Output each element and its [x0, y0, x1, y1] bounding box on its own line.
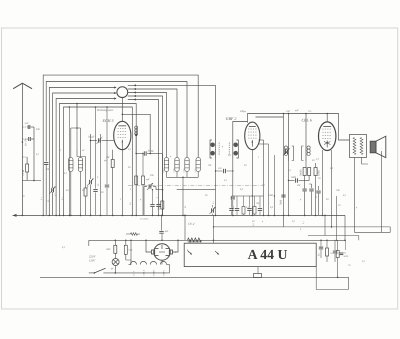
- svg-text:500: 500: [150, 174, 154, 177]
- svg-text:4: 4: [97, 176, 99, 179]
- label ECH3: [102, 118, 114, 123]
- capacitor 4uF top: [159, 215, 169, 241]
- svg-text:500: 500: [36, 128, 40, 131]
- svg-text:Drehung kurz: Drehung kurz: [96, 108, 114, 112]
- svg-text:5000: 5000: [344, 255, 349, 258]
- resistor R detektor a: [300, 168, 307, 177]
- svg-text:0,1: 0,1: [36, 153, 39, 156]
- svg-text:0,7: 0,7: [316, 158, 320, 161]
- svg-text:μμF: μμF: [295, 109, 299, 112]
- wire right drop: [344, 215, 346, 241]
- svg-text:5: 5: [130, 188, 132, 191]
- coil L1: [69, 128, 73, 215]
- svg-text:μ: μ: [356, 206, 358, 209]
- IF2 secondary T2b: [302, 146, 311, 162]
- svg-text:0,5: 0,5: [330, 167, 334, 170]
- wire CBL6 top: [326, 113, 328, 122]
- svg-text:2: 2: [120, 198, 122, 201]
- capacitor col 107: [105, 106, 109, 215]
- svg-text:μ: μ: [300, 198, 302, 201]
- svg-text:1M: 1M: [106, 156, 110, 159]
- svg-text:25: 25: [338, 204, 341, 207]
- wire ECH3 top right: [122, 114, 152, 155]
- capacitor tilt a: [229, 196, 233, 215]
- wire IF2 bottoms: [289, 161, 307, 181]
- wire IF2b top: [305, 113, 307, 146]
- wire trim a: [144, 187, 163, 216]
- wire col 69: [69, 106, 71, 215]
- capacitor bus d: [258, 196, 262, 215]
- svg-text:4μF: 4μF: [165, 230, 169, 233]
- capacitor antenna series: [25, 122, 30, 129]
- coil osc 4: [194, 158, 201, 178]
- resistor det a: [135, 176, 138, 185]
- tube ECH3 V1: [114, 121, 131, 149]
- wire under box: [257, 267, 259, 274]
- wire switch left 1: [49, 86, 116, 215]
- svg-text:0,5: 0,5: [240, 188, 244, 191]
- wire chassis link: [177, 189, 216, 191]
- svg-text:0,1: 0,1: [337, 252, 340, 255]
- svg-text:μ: μ: [170, 155, 172, 158]
- svg-text:300μμ: 300μμ: [148, 150, 155, 153]
- wire IF1b bottom: [231, 159, 235, 216]
- wire switch right 1: [128, 84, 216, 139]
- svg-text:5000: 5000: [268, 194, 274, 197]
- transformer output: [350, 135, 367, 158]
- svg-text:0,1: 0,1: [362, 260, 365, 263]
- capacitor col 95: [93, 106, 97, 215]
- svg-text:1: 1: [258, 156, 259, 159]
- nameplate box: [184, 243, 316, 266]
- wire EBF2 diode: [259, 140, 264, 215]
- svg-text:CBL6: CBL6: [142, 269, 145, 275]
- svg-text:500: 500: [46, 168, 50, 171]
- coil L2: [78, 128, 82, 215]
- svg-text:0,1: 0,1: [40, 197, 43, 200]
- wire CY2 sides: [145, 240, 179, 253]
- wire link 336: [336, 196, 337, 241]
- svg-text:50: 50: [128, 166, 131, 169]
- capacitor 283: [280, 195, 286, 205]
- wire mains left: [88, 240, 90, 246]
- svg-text:1,5 M: 1,5 M: [22, 169, 25, 176]
- wire ECH3 top: [121, 97, 123, 122]
- svg-text:3: 3: [175, 251, 177, 254]
- wire AGC: [274, 155, 275, 215]
- svg-text:CY2: CY2: [132, 270, 135, 275]
- bus junctions: [22, 215, 324, 217]
- svg-text:300μμ: 300μμ: [240, 110, 247, 113]
- svg-text:50: 50: [232, 205, 235, 208]
- svg-text:5000: 5000: [280, 199, 283, 205]
- svg-text:aF: aF: [82, 149, 85, 152]
- svg-text:30: 30: [205, 194, 208, 197]
- wire right drop3: [316, 267, 348, 290]
- svg-text:0,1: 0,1: [302, 221, 305, 224]
- label CBL6: [302, 118, 312, 123]
- svg-text:2M: 2M: [297, 184, 301, 187]
- wire CBL6 down b: [331, 150, 333, 228]
- svg-text:30: 30: [312, 159, 315, 162]
- svg-text:0,1: 0,1: [61, 197, 64, 200]
- wire caps join: [22, 127, 34, 181]
- svg-text:0,50: 0,50: [183, 168, 186, 173]
- IF1 secondary T1b: [229, 140, 238, 159]
- wire ps drop: [337, 240, 339, 278]
- svg-text:25: 25: [348, 264, 351, 267]
- wire CBL6 down a: [322, 150, 324, 215]
- svg-text:ECH3: ECH3: [152, 269, 155, 276]
- wire link 358: [358, 236, 360, 241]
- capacitor bus b: [247, 196, 251, 215]
- resistor col 85: [84, 157, 87, 216]
- wire smoothing feed: [184, 215, 186, 241]
- wire trafo bottom: [355, 158, 369, 233]
- wire EBF2 top2: [256, 113, 285, 227]
- resistor bus c: [253, 196, 256, 215]
- filament chain: [129, 261, 167, 264]
- svg-text:0,1: 0,1: [318, 252, 321, 256]
- wire CY2 bottom: [161, 260, 163, 264]
- svg-text:0,50: 0,50: [173, 168, 176, 173]
- svg-text:5000: 5000: [291, 176, 297, 179]
- svg-text:0,1: 0,1: [288, 169, 291, 172]
- svg-text:Lad: Lad: [128, 249, 134, 252]
- svg-text:ECH 3: ECH 3: [102, 118, 114, 123]
- svg-text:0,2: 0,2: [262, 184, 266, 187]
- svg-text:50: 50: [97, 183, 100, 186]
- svg-text:EBF2: EBF2: [162, 269, 165, 275]
- wire node join: [22, 180, 41, 182]
- wire loop outer 2: [46, 82, 187, 162]
- wire switch left 2: [53, 92, 117, 188]
- capacitor 5000 volume: [288, 176, 309, 215]
- capacitor antenna 2: [25, 137, 31, 146]
- svg-text:CY 2: CY 2: [188, 222, 195, 226]
- capacitor left col2: [44, 163, 48, 216]
- wire IF2 top: [288, 113, 290, 146]
- svg-text:2: 2: [60, 149, 62, 152]
- ground bus: [13, 214, 346, 217]
- label EBF2: [225, 116, 236, 121]
- svg-text:50000: 50000: [300, 169, 303, 176]
- wire coil bottoms: [167, 177, 199, 216]
- resistor mains 800: [107, 240, 117, 254]
- tube CY2 V4: [152, 244, 173, 260]
- svg-text:0,1: 0,1: [331, 252, 334, 255]
- wire loop outer 1: [43, 75, 198, 215]
- wire switch left 3: [56, 97, 117, 215]
- capacitor ps b: [340, 252, 349, 258]
- wire filament to bus: [167, 265, 170, 273]
- wire antenna tap dash: [22, 127, 28, 139]
- antenna: [13, 83, 32, 215]
- lamp pilot: [111, 253, 119, 273]
- wire under switch a: [60, 104, 137, 216]
- svg-text:50: 50: [244, 164, 247, 167]
- svg-text:2: 2: [156, 197, 159, 198]
- wire EBF2 top: [248, 114, 350, 141]
- rail y240: [89, 239, 346, 241]
- svg-text:20-150: 20-150: [25, 138, 28, 146]
- pickup arrow a: [187, 250, 192, 255]
- resistor R detektor b: [308, 168, 311, 176]
- resistor 134: [126, 233, 140, 236]
- misc labels: [22, 110, 365, 267]
- wire switch right 5: [128, 98, 159, 203]
- bandswitch S1: [117, 87, 128, 98]
- wire col 100: [100, 134, 102, 215]
- svg-text:EBF 2: EBF 2: [225, 116, 236, 121]
- resistor R avc: [314, 168, 321, 177]
- resistor ps a: [331, 251, 340, 258]
- wire under switch b: [64, 107, 133, 215]
- wire IF1a bottom: [215, 159, 217, 216]
- capacitor row c: [316, 186, 320, 215]
- tube EBF2 V2: [245, 122, 260, 150]
- svg-text:50: 50: [326, 198, 329, 201]
- label A44U: [248, 247, 288, 262]
- svg-text:μμ: μμ: [104, 159, 107, 162]
- svg-text:μμF: μμF: [146, 178, 150, 181]
- trimmer osc a: [144, 178, 156, 190]
- svg-text:50: 50: [184, 205, 187, 208]
- capacitor out a: [318, 240, 324, 259]
- label CY2: [188, 222, 195, 226]
- svg-text:50μμF: 50μμF: [88, 136, 95, 139]
- svg-text:110V: 110V: [89, 259, 96, 263]
- wire speaker return: [381, 151, 383, 232]
- resistor bus a: [242, 196, 245, 215]
- label uuF: [295, 109, 312, 113]
- resistor 1.5M: [22, 157, 28, 181]
- svg-text:2pF: 2pF: [25, 122, 30, 125]
- wire col 77 bend: [76, 103, 85, 157]
- svg-text:100: 100: [286, 110, 290, 113]
- wire switch right 2: [128, 88, 177, 158]
- svg-text:0,50: 0,50: [194, 168, 197, 173]
- capacitor 300pF: [135, 150, 162, 202]
- rail y227: [213, 226, 390, 232]
- label Drehung kurz: [96, 108, 114, 112]
- svg-text:30: 30: [66, 189, 69, 192]
- wire right drop2: [345, 240, 347, 250]
- filament labels: [132, 269, 165, 276]
- svg-text:4μμ: 4μμ: [308, 110, 312, 113]
- svg-text:0,1: 0,1: [292, 220, 295, 223]
- svg-text:0,1: 0,1: [224, 179, 227, 182]
- svg-text:0,1: 0,1: [343, 194, 346, 197]
- rail y232: [355, 231, 391, 233]
- wire cluster: [305, 163, 316, 215]
- svg-text:0,1: 0,1: [128, 148, 131, 151]
- label chassis: [140, 218, 149, 221]
- wire filament drop: [130, 240, 132, 265]
- coil osc 2: [173, 158, 180, 178]
- wire EBF2 cathode: [251, 150, 253, 216]
- resistor under box: [254, 274, 262, 278]
- capacitor tilt b: [235, 196, 239, 215]
- trimmer AGC: [210, 205, 216, 215]
- IF2 primary T2a: [284, 146, 293, 162]
- svg-text:2M: 2M: [208, 164, 212, 167]
- trimmer IF2: [284, 148, 290, 155]
- resistor out b: [326, 240, 329, 263]
- coil osc 3: [183, 158, 190, 178]
- capacitor row a: [302, 189, 306, 215]
- svg-text:μ: μ: [262, 220, 264, 223]
- svg-text:0,2: 0,2: [54, 193, 57, 196]
- svg-text:50: 50: [318, 177, 321, 180]
- svg-text:0,1: 0,1: [228, 154, 231, 157]
- svg-text:0,1: 0,1: [212, 201, 215, 204]
- resistor osc: [158, 201, 164, 215]
- svg-text:0,1: 0,1: [62, 246, 65, 249]
- wire switch right 4: [128, 95, 163, 215]
- svg-text:4: 4: [300, 228, 302, 231]
- capacitor row b: [309, 184, 314, 215]
- svg-text:0,5: 0,5: [270, 206, 274, 209]
- capacitor grid 50pF: [88, 136, 114, 145]
- svg-text:CBL 6: CBL 6: [302, 118, 312, 123]
- resistor det b: [142, 153, 145, 216]
- capacitor col158: [156, 204, 160, 216]
- wire switch right 3: [128, 91, 167, 157]
- wire coil feed: [71, 127, 81, 129]
- trimmer col 90: [88, 134, 94, 215]
- svg-text:100: 100: [336, 189, 340, 192]
- capacitor mains: [124, 240, 133, 261]
- misc rotated labels: [40, 183, 318, 226]
- svg-text:0,1: 0,1: [344, 252, 347, 255]
- svg-text:800: 800: [107, 248, 112, 251]
- resistor ECH3 cathode: [106, 150, 114, 216]
- svg-text:50000: 50000: [158, 203, 161, 210]
- tube CBL6 V3: [319, 122, 336, 151]
- svg-text:0,3M: 0,3M: [318, 170, 321, 176]
- svg-text:μ: μ: [222, 145, 224, 148]
- svg-text:0,1: 0,1: [64, 172, 67, 175]
- svg-text:μ: μ: [140, 198, 142, 201]
- trimmer left col4: [50, 187, 56, 216]
- svg-text:50: 50: [101, 191, 104, 194]
- electrode blob: [135, 126, 138, 154]
- wire EBF2 diode2: [259, 144, 269, 215]
- capacitor col152: [150, 189, 154, 215]
- pickup arrow b: [215, 251, 219, 255]
- rail y235: [308, 215, 359, 236]
- svg-text:30: 30: [252, 220, 255, 223]
- wire ECH3 cathode: [121, 147, 123, 216]
- svg-text:100: 100: [218, 167, 222, 170]
- switch mains: [89, 268, 170, 273]
- label 220V: [89, 255, 97, 263]
- svg-text:2M: 2M: [256, 202, 260, 205]
- svg-text:st-umtte: st-umtte: [140, 218, 149, 221]
- svg-text:0,2: 0,2: [82, 189, 86, 192]
- chassis dashdot line: [128, 184, 262, 186]
- rail y277: [40, 276, 349, 278]
- wire box drops: [189, 215, 214, 243]
- svg-text:0,5: 0,5: [129, 201, 132, 205]
- svg-text:6V: 6V: [111, 268, 114, 271]
- wire IF1b top: [233, 122, 248, 140]
- capacitor 100pF mid: [215, 167, 234, 173]
- IF1 primary T1a: [210, 140, 219, 159]
- capacitor out c: [333, 240, 340, 262]
- svg-text:50: 50: [22, 195, 25, 198]
- svg-text:A 44 U: A 44 U: [248, 247, 288, 262]
- wire bus row top: [232, 195, 264, 196]
- resistor smoothing: [188, 238, 202, 242]
- speaker LS: [370, 136, 386, 157]
- coil osc 1: [162, 158, 169, 178]
